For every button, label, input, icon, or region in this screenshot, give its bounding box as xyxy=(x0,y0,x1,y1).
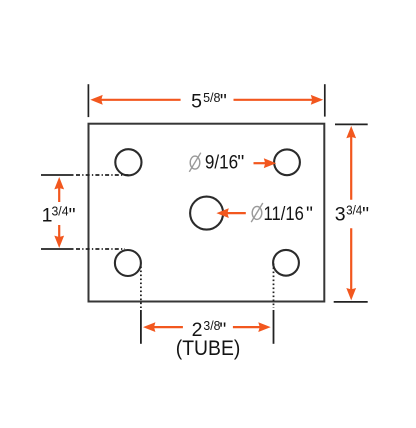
5 5/8 dimension line left shaft xyxy=(97,99,181,101)
lower extension line of 1 3/4 dimension (dash-dot part) xyxy=(76,248,125,250)
svg-text:3/4: 3/4 xyxy=(346,203,362,218)
1 3/4 dimension up arrowhead xyxy=(54,177,64,189)
label 1 3/4" xyxy=(42,204,76,227)
svg-text:": " xyxy=(220,91,227,113)
11/16 leader arrowhead xyxy=(216,208,228,218)
label 11/16" xyxy=(264,203,314,225)
2 3/8 dimension right arrowhead xyxy=(258,322,270,332)
9/16 leader shaft xyxy=(254,162,269,164)
left extension of 2 3/8 dimension (solid tick) xyxy=(140,310,142,344)
5 5/8 dimension line right shaft xyxy=(234,99,317,101)
lower extension line of 1 3/4 dimension (solid part) xyxy=(41,248,74,250)
2 3/8 dimension line left shaft xyxy=(149,326,183,328)
extension line top-right of 3 3/4 dimension xyxy=(335,123,368,125)
svg-text:11/16: 11/16 xyxy=(264,203,304,225)
svg-text:": " xyxy=(237,151,244,173)
diameter symbol for 11/16 hole xyxy=(251,203,263,222)
3 3/4 dimension down arrowhead xyxy=(346,288,356,300)
right extension of 2 3/8 dimension (dotted part) xyxy=(273,264,275,309)
hole center xyxy=(190,197,223,230)
svg-text:": " xyxy=(69,204,76,226)
label 5 5/8" xyxy=(191,90,227,113)
11/16 leader shaft xyxy=(224,212,246,214)
svg-text:5/8: 5/8 xyxy=(203,90,220,105)
svg-text:3/4: 3/4 xyxy=(52,204,69,219)
2 3/8 dimension line right shaft xyxy=(233,326,265,328)
5 5/8 dimension left arrowhead xyxy=(90,95,102,105)
1 3/4 dimension lower shaft xyxy=(58,225,60,241)
svg-text:3/8: 3/8 xyxy=(203,318,220,333)
svg-text:": " xyxy=(306,203,313,225)
3 3/4 dimension upper shaft xyxy=(350,132,352,200)
label 9/16" xyxy=(205,151,245,173)
svg-text:": " xyxy=(362,203,369,225)
upper extension line of 1 3/4 dimension (dash-dot part) xyxy=(76,174,129,176)
diameter symbol for 9/16 hole xyxy=(189,153,201,172)
3 3/4 dimension up arrowhead xyxy=(346,126,356,138)
extension tick left of 5 5/8 dimension xyxy=(87,84,89,117)
hole bottom-right xyxy=(273,250,299,276)
hole top-right xyxy=(274,149,300,175)
extension line bottom-right of 3 3/4 dimension xyxy=(334,301,368,303)
svg-text:9/16: 9/16 xyxy=(205,151,238,173)
upper extension line of 1 3/4 dimension (solid part) xyxy=(41,174,74,176)
1 3/4 dimension upper shaft xyxy=(58,184,60,202)
right extension of 2 3/8 dimension (solid tick) xyxy=(273,310,275,344)
hole bottom-left xyxy=(115,250,141,276)
svg-text:(TUBE): (TUBE) xyxy=(176,337,241,360)
2 3/8 dimension left arrowhead xyxy=(143,322,155,332)
label 3 3/4" xyxy=(335,203,369,226)
label 2 3/8" xyxy=(192,318,227,341)
plate outline xyxy=(89,124,325,302)
extension tick right of 5 5/8 dimension xyxy=(324,84,326,116)
left extension of 2 3/8 dimension (dotted part) xyxy=(140,267,142,309)
3 3/4 dimension lower shaft xyxy=(350,228,352,294)
svg-text:5: 5 xyxy=(191,91,202,113)
hole top-left xyxy=(115,149,141,175)
svg-text:3: 3 xyxy=(335,203,346,225)
1 3/4 dimension down arrowhead xyxy=(54,236,64,248)
5 5/8 dimension right arrowhead xyxy=(311,95,323,105)
9/16 leader arrowhead xyxy=(264,158,276,168)
